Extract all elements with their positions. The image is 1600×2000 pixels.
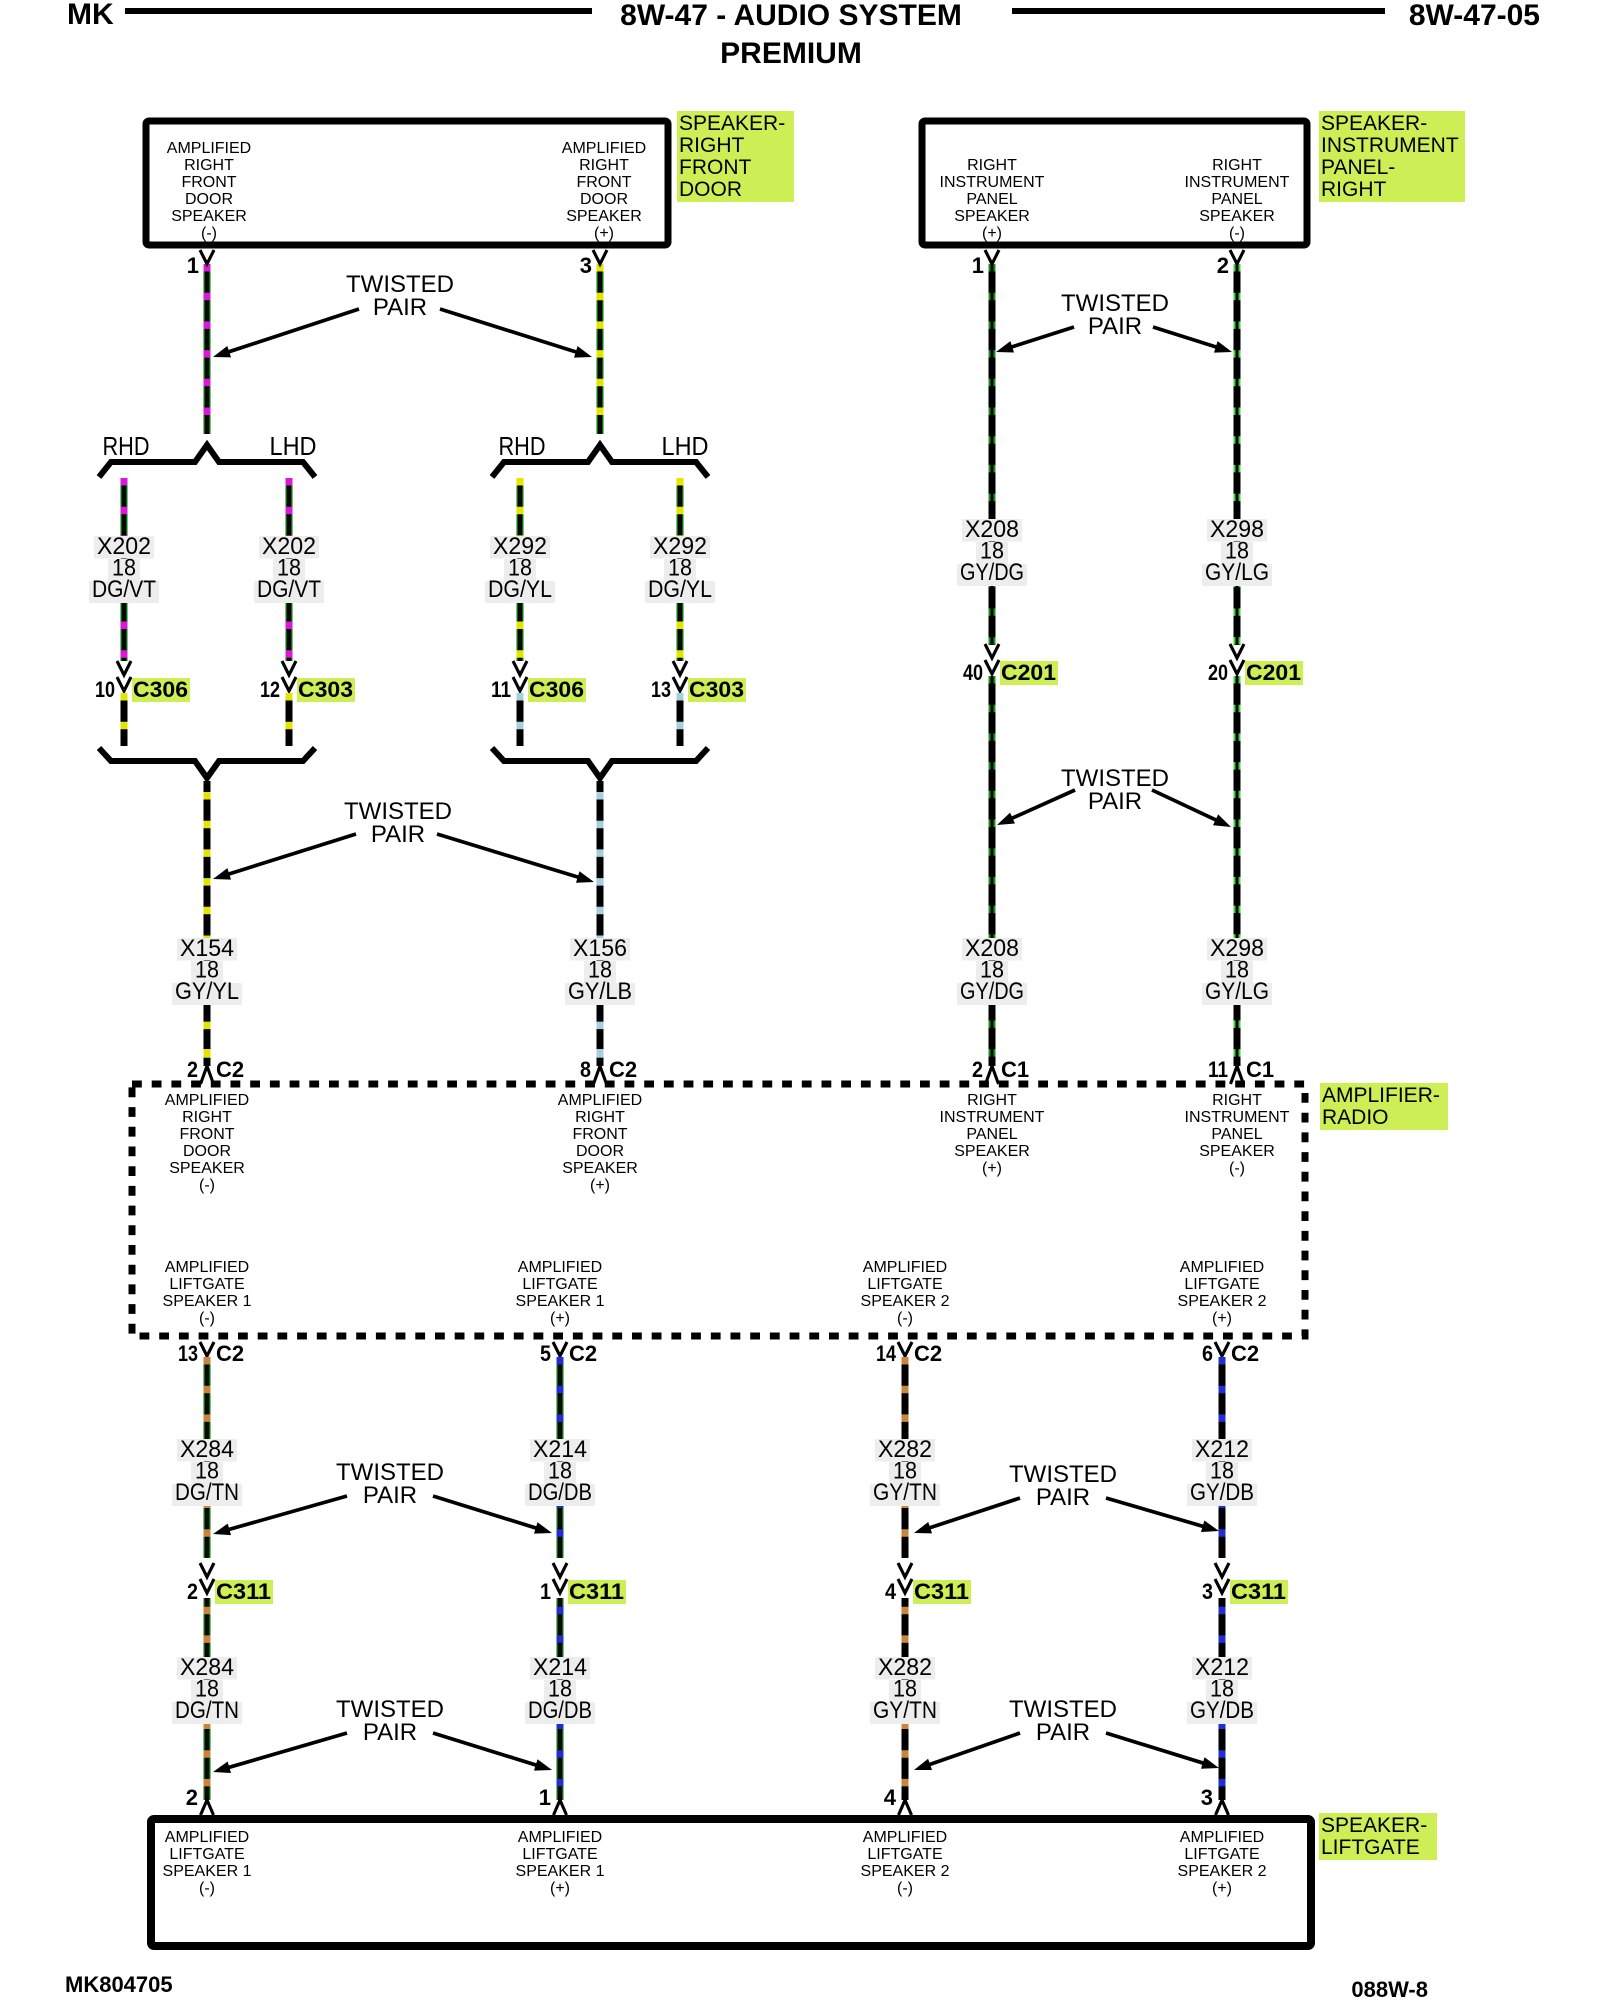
svg-text:PAIR: PAIR xyxy=(363,1482,417,1509)
svg-text:DOOR: DOOR xyxy=(185,191,233,208)
label X284 18 DG/TN (below C311) xyxy=(177,1657,237,1680)
svg-text:LIFTGATE: LIFTGATE xyxy=(867,1846,942,1863)
svg-text:DOOR: DOOR xyxy=(576,1143,624,1160)
wire X202 18 DG/VT RHD xyxy=(121,478,128,661)
label X214 18 DG/DB (below C311) xyxy=(530,1657,590,1680)
label X282 18 GY/TN (below C311) xyxy=(875,1657,935,1680)
svg-text:PAIR: PAIR xyxy=(371,821,425,848)
svg-text:C311: C311 xyxy=(1231,1579,1286,1604)
svg-text:PREMIUM: PREMIUM xyxy=(720,37,862,70)
svg-text:PANEL-: PANEL- xyxy=(1321,156,1395,179)
connector C201 pin 20 xyxy=(1230,644,1244,658)
svg-text:GY/YL: GY/YL xyxy=(175,978,239,1005)
svg-text:LIFTGATE: LIFTGATE xyxy=(867,1276,942,1293)
component name label SPEAKER-RIGHT FRONT DOOR xyxy=(677,111,794,202)
svg-text:DG/VT: DG/VT xyxy=(92,576,156,603)
svg-text:2: 2 xyxy=(187,1057,198,1082)
box speaker-instrument-panel-right xyxy=(922,121,1307,245)
svg-text:FRONT: FRONT xyxy=(179,1126,234,1143)
svg-text:LIFTGATE: LIFTGATE xyxy=(1321,1836,1420,1859)
svg-text:DG/VT: DG/VT xyxy=(257,576,321,603)
label X212 18 GY/DB (above C311) xyxy=(1192,1439,1252,1462)
svg-text:AMPLIFIED: AMPLIFIED xyxy=(518,1259,602,1276)
svg-text:PANEL: PANEL xyxy=(966,1126,1017,1143)
wire X284 18 DG/TN upper run to liftgate speaker 1 (-) xyxy=(204,1357,211,1558)
wire X156 GY/LB below C306 xyxy=(517,693,524,746)
wire X214 18 DG/DB upper run to liftgate speaker 1 (+) xyxy=(557,1357,564,1558)
svg-text:PAIR: PAIR xyxy=(1036,1484,1090,1511)
svg-text:INSTRUMENT: INSTRUMENT xyxy=(1185,1109,1290,1126)
svg-text:SPEAKER: SPEAKER xyxy=(562,1160,638,1177)
svg-text:1: 1 xyxy=(540,1579,551,1604)
wire X292 18 DG/YL RHD xyxy=(517,478,524,661)
svg-text:INSTRUMENT: INSTRUMENT xyxy=(940,174,1045,191)
svg-text:C303: C303 xyxy=(689,677,744,702)
svg-text:SPEAKER 2: SPEAKER 2 xyxy=(1178,1293,1267,1310)
svg-text:SPEAKER-: SPEAKER- xyxy=(679,112,785,135)
svg-text:RIGHT: RIGHT xyxy=(679,134,745,157)
svg-text:SPEAKER-: SPEAKER- xyxy=(1321,112,1427,135)
svg-text:AMPLIFIED: AMPLIFIED xyxy=(165,1259,249,1276)
svg-text:FRONT: FRONT xyxy=(572,1126,627,1143)
svg-text:14: 14 xyxy=(876,1341,897,1366)
svg-text:SPEAKER 1: SPEAKER 1 xyxy=(163,1293,252,1310)
svg-text:C2: C2 xyxy=(1231,1341,1259,1366)
svg-text:C311: C311 xyxy=(216,1579,271,1604)
svg-text:GY/TN: GY/TN xyxy=(873,1697,937,1724)
svg-text:(+): (+) xyxy=(982,1160,1002,1177)
label X202 18 DG/VT (RHD) xyxy=(94,536,154,559)
svg-text:(-): (-) xyxy=(199,1177,215,1194)
svg-text:(+): (+) xyxy=(550,1310,570,1327)
wire X292 18 DG/YL LHD xyxy=(677,478,684,661)
svg-text:PAIR: PAIR xyxy=(1036,1719,1090,1746)
svg-text:1: 1 xyxy=(972,253,984,278)
svg-text:(+): (+) xyxy=(594,225,614,242)
svg-text:RIGHT: RIGHT xyxy=(575,1109,625,1126)
svg-text:C311: C311 xyxy=(569,1579,624,1604)
svg-text:(-): (-) xyxy=(199,1310,215,1327)
svg-text:DOOR: DOOR xyxy=(679,178,742,201)
wire X202 DG/VT from door speaker pin 1 xyxy=(204,264,211,434)
svg-text:C1: C1 xyxy=(1001,1057,1029,1082)
svg-text:(+): (+) xyxy=(1212,1310,1232,1327)
box speaker-right-front-door xyxy=(146,121,668,245)
connector C311 pin 2 xyxy=(200,1563,214,1577)
svg-text:AMPLIFIED: AMPLIFIED xyxy=(1180,1259,1264,1276)
svg-text:RIGHT: RIGHT xyxy=(1321,178,1387,201)
svg-text:PANEL: PANEL xyxy=(1211,1126,1262,1143)
svg-text:PAIR: PAIR xyxy=(1088,313,1142,340)
svg-text:2: 2 xyxy=(186,1785,198,1810)
svg-text:SPEAKER 1: SPEAKER 1 xyxy=(516,1293,605,1310)
svg-text:AMPLIFIED: AMPLIFIED xyxy=(165,1092,249,1109)
svg-text:C201: C201 xyxy=(1001,660,1056,685)
connector C303 pin 12 xyxy=(282,661,296,675)
svg-text:SPEAKER-: SPEAKER- xyxy=(1321,1814,1427,1837)
svg-text:1: 1 xyxy=(539,1785,551,1810)
svg-text:11: 11 xyxy=(491,677,511,702)
svg-text:DG/YL: DG/YL xyxy=(488,576,552,603)
svg-text:GY/DG: GY/DG xyxy=(960,978,1024,1005)
svg-text:SPEAKER: SPEAKER xyxy=(954,208,1030,225)
svg-text:6: 6 xyxy=(1202,1341,1213,1366)
merge brace RHD/LHD merge X154 xyxy=(99,748,315,778)
svg-text:GY/DG: GY/DG xyxy=(960,559,1024,586)
svg-text:AMPLIFIED: AMPLIFIED xyxy=(167,140,251,157)
svg-text:AMPLIFIED: AMPLIFIED xyxy=(518,1829,602,1846)
wire X298 18 GY/LG from panel speaker pin 2 xyxy=(1234,264,1241,645)
svg-text:12: 12 xyxy=(260,677,280,702)
svg-text:8W-47-05: 8W-47-05 xyxy=(1409,0,1540,32)
svg-text:LIFTGATE: LIFTGATE xyxy=(522,1276,597,1293)
label X212 18 GY/DB (below C311) xyxy=(1192,1657,1252,1680)
wire X154 yellow dash at amplifier pin xyxy=(204,1049,211,1057)
label X292 18 DG/YL (RHD) xyxy=(490,536,550,559)
svg-text:LHD: LHD xyxy=(662,431,709,461)
svg-text:RIGHT: RIGHT xyxy=(182,1109,232,1126)
wire X282 18 GY/TN upper run to liftgate speaker 2 (-) xyxy=(902,1357,909,1558)
svg-text:11: 11 xyxy=(1208,1057,1228,1082)
svg-text:INSTRUMENT: INSTRUMENT xyxy=(1185,174,1290,191)
svg-text:C311: C311 xyxy=(914,1579,969,1604)
svg-text:GY/TN: GY/TN xyxy=(873,1479,937,1506)
svg-text:GY/LG: GY/LG xyxy=(1205,559,1269,586)
svg-text:RIGHT: RIGHT xyxy=(1212,157,1262,174)
svg-text:DG/DB: DG/DB xyxy=(528,1697,592,1724)
svg-text:40: 40 xyxy=(963,660,983,685)
svg-text:MK804705: MK804705 xyxy=(65,1972,173,1997)
wire X282 18 GY/TN lower run to liftgate speaker 2 (-) xyxy=(902,1598,909,1800)
svg-text:GY/LG: GY/LG xyxy=(1205,978,1269,1005)
wire X156 18 GY/LB to amplifier xyxy=(597,781,604,1066)
svg-text:RIGHT: RIGHT xyxy=(967,157,1017,174)
svg-text:SPEAKER: SPEAKER xyxy=(1199,1143,1275,1160)
label X298 18 GY/LG (lower) xyxy=(1207,938,1267,961)
svg-text:(-): (-) xyxy=(201,225,217,242)
svg-text:LIFTGATE: LIFTGATE xyxy=(522,1846,597,1863)
svg-text:AMPLIFIED: AMPLIFIED xyxy=(1180,1829,1264,1846)
svg-text:13: 13 xyxy=(178,1341,198,1366)
svg-text:(-): (-) xyxy=(1229,225,1245,242)
svg-text:PAIR: PAIR xyxy=(363,1719,417,1746)
svg-text:C2: C2 xyxy=(914,1341,942,1366)
svg-text:SPEAKER: SPEAKER xyxy=(1199,208,1275,225)
svg-text:5: 5 xyxy=(540,1341,551,1366)
svg-text:3: 3 xyxy=(580,253,592,278)
svg-text:C1: C1 xyxy=(1246,1057,1274,1082)
connector C311 pin 4 xyxy=(898,1563,912,1577)
split brace RHD/LHD split X292 xyxy=(492,445,708,477)
box speaker-liftgate xyxy=(151,1819,1311,1946)
wire X292 DG/YL from door speaker pin 3 xyxy=(597,264,604,434)
wire X208 18 GY/DG to amplifier xyxy=(989,676,996,1066)
svg-text:SPEAKER 2: SPEAKER 2 xyxy=(861,1863,950,1880)
label X298 18 GY/LG (upper) xyxy=(1207,519,1267,542)
label X282 18 GY/TN (above C311) xyxy=(875,1439,935,1462)
svg-text:(-): (-) xyxy=(1229,1160,1245,1177)
wire X214 18 DG/DB lower run to liftgate speaker 1 (+) xyxy=(557,1598,564,1800)
svg-text:RADIO: RADIO xyxy=(1322,1106,1389,1129)
svg-text:C2: C2 xyxy=(216,1341,244,1366)
connector C311 pin 3 xyxy=(1215,1563,1229,1577)
svg-text:FRONT: FRONT xyxy=(181,174,236,191)
connector C201 pin 40 xyxy=(985,644,999,658)
svg-text:LIFTGATE: LIFTGATE xyxy=(169,1276,244,1293)
svg-text:RHD: RHD xyxy=(103,431,150,461)
svg-text:AMPLIFIED: AMPLIFIED xyxy=(863,1259,947,1276)
svg-text:GY/DB: GY/DB xyxy=(1190,1479,1254,1506)
label X284 18 DG/TN (above C311) xyxy=(177,1439,237,1462)
svg-text:LHD: LHD xyxy=(270,431,317,461)
wire X298 18 GY/LG to amplifier xyxy=(1234,676,1241,1066)
connector C306 pin 11 xyxy=(513,661,527,675)
svg-text:13: 13 xyxy=(651,677,671,702)
svg-text:(+): (+) xyxy=(1212,1880,1232,1897)
connector C306 pin 10 xyxy=(117,661,131,675)
svg-text:SPEAKER: SPEAKER xyxy=(954,1143,1030,1160)
svg-text:INSTRUMENT: INSTRUMENT xyxy=(1321,134,1459,157)
wire X154 GY/YL below C303 xyxy=(286,693,293,746)
label X214 18 DG/DB (above C311) xyxy=(530,1439,590,1462)
label X208 18 GY/DG (lower) xyxy=(962,938,1022,961)
svg-text:C2: C2 xyxy=(569,1341,597,1366)
svg-text:AMPLIFIED: AMPLIFIED xyxy=(558,1092,642,1109)
wire X212 18 GY/DB upper run to liftgate speaker 2 (+) xyxy=(1219,1357,1226,1558)
svg-text:AMPLIFIED: AMPLIFIED xyxy=(165,1829,249,1846)
svg-text:2: 2 xyxy=(972,1057,983,1082)
merge brace RHD/LHD merge X156 xyxy=(492,748,708,778)
box amplifier-radio (dashed) xyxy=(132,1084,1305,1336)
component name label AMPLIFIER-RADIO xyxy=(1320,1083,1448,1130)
svg-text:GY/DB: GY/DB xyxy=(1190,1697,1254,1724)
svg-text:C2: C2 xyxy=(216,1057,244,1082)
label X292 18 DG/YL (LHD) xyxy=(650,536,710,559)
component name label SPEAKER-LIFTGATE xyxy=(1319,1813,1437,1860)
svg-text:FRONT: FRONT xyxy=(679,156,751,179)
svg-text:DOOR: DOOR xyxy=(580,191,628,208)
svg-text:C201: C201 xyxy=(1246,660,1301,685)
svg-text:4: 4 xyxy=(884,1785,897,1810)
svg-text:1: 1 xyxy=(187,253,199,278)
svg-text:SPEAKER: SPEAKER xyxy=(566,208,642,225)
wire X154 GY/YL below C306 xyxy=(121,693,128,746)
header rule right xyxy=(1012,8,1385,14)
svg-text:20: 20 xyxy=(1208,660,1228,685)
wire X284 18 DG/TN lower run to liftgate speaker 1 (-) xyxy=(204,1598,211,1800)
component name label SPEAKER-INSTRUMENT PANEL-RIGHT xyxy=(1319,111,1465,202)
svg-text:LIFTGATE: LIFTGATE xyxy=(1184,1846,1259,1863)
svg-text:(+): (+) xyxy=(550,1880,570,1897)
svg-text:RHD: RHD xyxy=(499,431,546,461)
svg-text:10: 10 xyxy=(95,677,115,702)
svg-text:AMPLIFIER-: AMPLIFIER- xyxy=(1322,1084,1440,1107)
label X154 18 GY/YL xyxy=(177,938,237,961)
header rule left xyxy=(125,8,592,14)
svg-text:3: 3 xyxy=(1202,1579,1213,1604)
svg-text:(-): (-) xyxy=(199,1880,215,1897)
wire X208 18 GY/DG from panel speaker pin 1 xyxy=(989,264,996,645)
svg-text:GY/LB: GY/LB xyxy=(568,978,632,1005)
svg-text:(-): (-) xyxy=(897,1880,913,1897)
svg-text:LIFTGATE: LIFTGATE xyxy=(1184,1276,1259,1293)
label X156 18 GY/LB xyxy=(570,938,630,961)
svg-text:(+): (+) xyxy=(982,225,1002,242)
svg-text:RIGHT: RIGHT xyxy=(579,157,629,174)
svg-text:PAIR: PAIR xyxy=(1088,788,1142,815)
svg-text:PANEL: PANEL xyxy=(966,191,1017,208)
wire X156 GY/LB below C303 xyxy=(677,693,684,746)
svg-text:RIGHT: RIGHT xyxy=(1212,1092,1262,1109)
svg-text:DG/DB: DG/DB xyxy=(528,1479,592,1506)
svg-text:2: 2 xyxy=(1217,253,1229,278)
svg-text:C306: C306 xyxy=(529,677,584,702)
wire X212 18 GY/DB lower run to liftgate speaker 2 (+) xyxy=(1219,1598,1226,1800)
svg-text:RIGHT: RIGHT xyxy=(184,157,234,174)
svg-text:PAIR: PAIR xyxy=(373,294,427,321)
svg-text:MK: MK xyxy=(67,0,114,31)
wire X156 light blue dash at amplifier pin xyxy=(597,1049,604,1057)
svg-text:SPEAKER 2: SPEAKER 2 xyxy=(861,1293,950,1310)
svg-text:3: 3 xyxy=(1201,1785,1213,1810)
svg-text:INSTRUMENT: INSTRUMENT xyxy=(940,1109,1045,1126)
svg-text:LIFTGATE: LIFTGATE xyxy=(169,1846,244,1863)
svg-text:(+): (+) xyxy=(590,1177,610,1194)
label X202 18 DG/VT (LHD) xyxy=(259,536,319,559)
svg-text:AMPLIFIED: AMPLIFIED xyxy=(562,140,646,157)
connector C311 pin 1 xyxy=(553,1563,567,1577)
svg-text:(-): (-) xyxy=(897,1310,913,1327)
svg-text:8W-47 - AUDIO SYSTEM: 8W-47 - AUDIO SYSTEM xyxy=(620,0,962,32)
svg-text:SPEAKER 1: SPEAKER 1 xyxy=(163,1863,252,1880)
svg-text:C2: C2 xyxy=(609,1057,637,1082)
svg-text:DG/TN: DG/TN xyxy=(175,1697,239,1724)
label X208 18 GY/DG (upper) xyxy=(962,519,1022,542)
svg-text:PANEL: PANEL xyxy=(1211,191,1262,208)
svg-text:SPEAKER 2: SPEAKER 2 xyxy=(1178,1863,1267,1880)
svg-text:RIGHT: RIGHT xyxy=(967,1092,1017,1109)
svg-text:DG/TN: DG/TN xyxy=(175,1479,239,1506)
wire X154 18 GY/YL to amplifier xyxy=(204,781,211,1066)
split brace RHD/LHD split X202 xyxy=(99,445,315,477)
svg-text:C306: C306 xyxy=(133,677,188,702)
svg-text:SPEAKER: SPEAKER xyxy=(171,208,247,225)
svg-text:088W-8: 088W-8 xyxy=(1351,1977,1428,2000)
svg-text:FRONT: FRONT xyxy=(576,174,631,191)
svg-text:C303: C303 xyxy=(298,677,353,702)
svg-text:4: 4 xyxy=(885,1579,897,1604)
svg-text:SPEAKER: SPEAKER xyxy=(169,1160,245,1177)
svg-text:DG/YL: DG/YL xyxy=(648,576,712,603)
connector C303 pin 13 xyxy=(673,661,687,675)
svg-text:SPEAKER 1: SPEAKER 1 xyxy=(516,1863,605,1880)
svg-text:AMPLIFIED: AMPLIFIED xyxy=(863,1829,947,1846)
svg-text:DOOR: DOOR xyxy=(183,1143,231,1160)
svg-text:8: 8 xyxy=(580,1057,591,1082)
svg-text:2: 2 xyxy=(187,1579,198,1604)
wire X202 18 DG/VT LHD xyxy=(286,478,293,661)
